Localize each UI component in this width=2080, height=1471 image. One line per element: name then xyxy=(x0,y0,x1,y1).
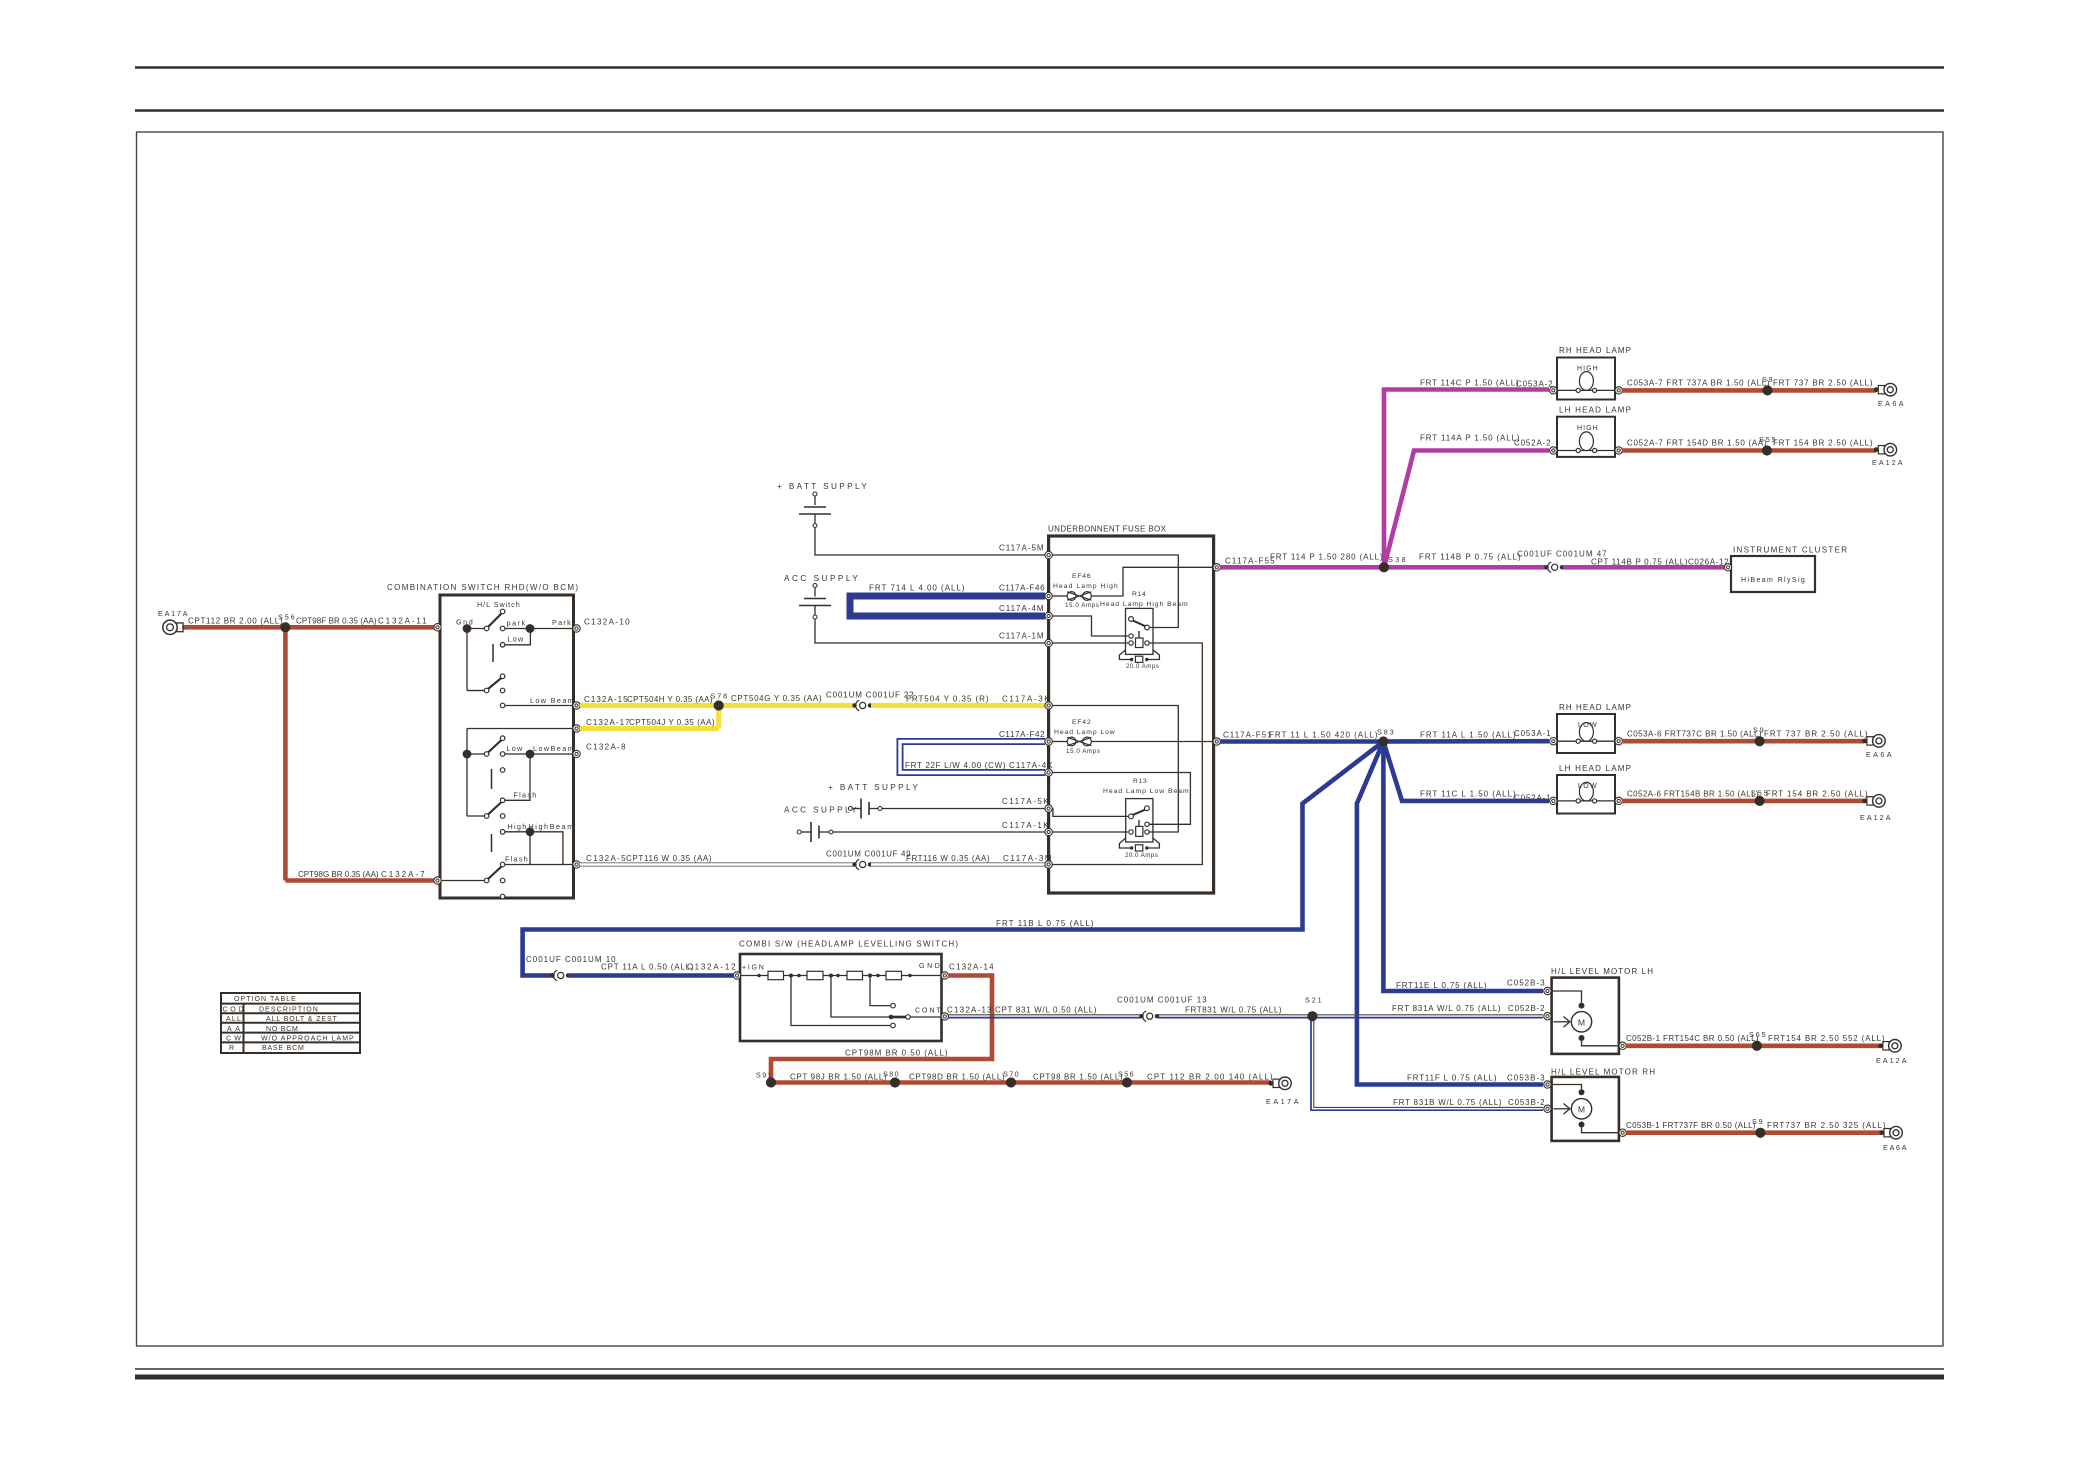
connector C117A-F51 / wire FRT 11 L blue xyxy=(1213,738,1220,745)
svg-text:EA12A: EA12A xyxy=(1860,813,1891,822)
contact Low Beam output xyxy=(500,703,505,708)
connector C117A-5M xyxy=(1045,551,1052,558)
svg-text:M: M xyxy=(1578,1104,1585,1114)
ring terminal EA6A (motor) xyxy=(1884,1129,1890,1137)
svg-text:HIGH: HIGH xyxy=(1577,425,1598,432)
connector C117A-3M xyxy=(1045,861,1052,868)
svg-text:C026A-12: C026A-12 xyxy=(1688,558,1729,567)
svg-text:C053A-2: C053A-2 xyxy=(1516,380,1553,389)
ring terminal EA12A (low) xyxy=(1867,797,1873,805)
svg-text:NO BCM: NO BCM xyxy=(266,1026,298,1033)
page top rule 1 xyxy=(135,66,1944,68)
svg-text:C053B-2: C053B-2 xyxy=(1508,1098,1545,1107)
svg-text:Flash: Flash xyxy=(514,791,537,800)
selector tap 1 xyxy=(870,976,890,1006)
wire CPT112 BR 2.00 (ALL) brown xyxy=(184,625,285,630)
svg-text:CPT 11A L 0.50 (ALL): CPT 11A L 0.50 (ALL) xyxy=(601,963,694,972)
switch linkage dash 3 xyxy=(491,834,493,852)
svg-text:ACC SUPPLY: ACC SUPPLY xyxy=(784,574,859,583)
page bottom thin rule xyxy=(135,1368,1944,1370)
svg-text:FRT 831B W/L 0.75 (ALL): FRT 831B W/L 0.75 (ALL) xyxy=(1393,1098,1502,1107)
wire FRT11E L blue branch xyxy=(1383,742,1543,992)
svg-text:CPT504H Y 0.35 (AA): CPT504H Y 0.35 (AA) xyxy=(627,695,713,704)
20.0 Amps fuse under R14 xyxy=(1119,650,1131,660)
connector C052B-2 xyxy=(1544,1013,1551,1020)
svg-text:FRT 11 L 1.50 420 (ALL): FRT 11 L 1.50 420 (ALL) xyxy=(1269,731,1378,740)
motor LH internals xyxy=(1552,991,1582,1003)
svg-text:C117A-F55: C117A-F55 xyxy=(1225,557,1275,566)
svg-text:FRT11F L 0.75 (ALL): FRT11F L 0.75 (ALL) xyxy=(1407,1074,1497,1083)
wire FRT 831A W/L to motor LH xyxy=(1312,1014,1543,1016)
svg-text:BASE BCM: BASE BCM xyxy=(262,1045,304,1052)
svg-text:DESCRIPTION: DESCRIPTION xyxy=(259,1007,318,1014)
selector tap 2 wiper xyxy=(831,976,889,1018)
svg-text:S80: S80 xyxy=(883,1070,899,1079)
svg-text:FRT11E L 0.75 (ALL): FRT11E L 0.75 (ALL) xyxy=(1396,981,1487,990)
svg-text:Low Beam: Low Beam xyxy=(530,696,574,705)
svg-text:C053A-6 FRT737C BR 1.50 (ALL): C053A-6 FRT737C BR 1.50 (ALL) xyxy=(1627,730,1762,739)
svg-text:S56: S56 xyxy=(1118,1070,1134,1079)
connector C117A-5K xyxy=(1045,805,1052,812)
wire FRT 11B L blue branch xyxy=(523,742,1384,976)
connector C132A-11 on switch box xyxy=(434,624,441,631)
connector C132A-7 on switch box xyxy=(434,877,441,884)
wire EF46 to C117A-F55 xyxy=(1091,567,1213,596)
svg-text:H/L LEVEL MOTOR RH: H/L LEVEL MOTOR RH xyxy=(1551,1068,1655,1077)
inline connector C001UF C001UM 47 xyxy=(1544,565,1548,569)
ring terminal EA17A (left) xyxy=(177,623,183,632)
connector C132A-17 / wire CPT504J yellow xyxy=(573,725,580,732)
svg-text:C117A-F51: C117A-F51 xyxy=(1223,731,1272,740)
switch linkage dash 1 xyxy=(492,644,494,662)
svg-text:C117A-4K: C117A-4K xyxy=(1009,761,1053,770)
svg-text:C117A-5M: C117A-5M xyxy=(999,544,1044,553)
svg-text:R14: R14 xyxy=(1132,591,1146,598)
svg-text:C001UM C001UF 49: C001UM C001UF 49 xyxy=(826,850,911,859)
svg-text:FRT 114A P 1.50 (ALL): FRT 114A P 1.50 (ALL) xyxy=(1420,434,1520,443)
inline connector C001UM C001UF 22 xyxy=(852,703,856,707)
contact flash upper xyxy=(500,768,505,773)
svg-text:LOW: LOW xyxy=(1578,783,1597,790)
svg-text:LOW: LOW xyxy=(1578,722,1597,729)
svg-text:CPT98F BR 0.35 (AA): CPT98F BR 0.35 (AA) xyxy=(296,617,377,626)
svg-text:C117A-1K: C117A-1K xyxy=(1002,821,1049,830)
svg-text:C132A-17: C132A-17 xyxy=(586,718,630,727)
svg-text:S70: S70 xyxy=(1003,1070,1019,1079)
svg-text:FRT 11A L 1.50 (ALL): FRT 11A L 1.50 (ALL) xyxy=(1420,731,1516,740)
svg-text:CPT116 W 0.35 (AA): CPT116 W 0.35 (AA) xyxy=(626,854,712,863)
svg-text:LH HEAD LAMP: LH HEAD LAMP xyxy=(1559,406,1631,415)
svg-text:FRT 11C L 1.50 (ALL): FRT 11C L 1.50 (ALL) xyxy=(1420,790,1516,799)
connector C132A-13 / wire CPT 831 W/L xyxy=(941,1013,948,1020)
svg-text:CW: CW xyxy=(226,1035,241,1042)
junction S21 xyxy=(1307,1011,1317,1021)
svg-text:C117A-5K: C117A-5K xyxy=(1002,797,1049,806)
connector C117A-1M xyxy=(1045,639,1052,646)
connector C117A-F46 xyxy=(1045,592,1052,599)
svg-text:S38: S38 xyxy=(1388,555,1406,564)
svg-text:CPT98D BR 1.50 (ALL): CPT98D BR 1.50 (ALL) xyxy=(909,1073,1005,1082)
connector C132A-15 / wire CPT504H yellow xyxy=(573,702,580,709)
inline connector C001UF C001UM 10 xyxy=(550,973,554,977)
connector C117A-F42 xyxy=(1045,738,1052,745)
junction S9 (high RH) xyxy=(1763,385,1773,395)
wire FRT 714 L 4.00 (ALL) blue U xyxy=(850,596,1045,616)
resistor ladder of levelling switch xyxy=(740,975,768,977)
svg-text:C052B-2: C052B-2 xyxy=(1508,1004,1545,1013)
svg-text:UNDERBONNENT FUSE BOX: UNDERBONNENT FUSE BOX xyxy=(1048,525,1167,534)
svg-text:R: R xyxy=(229,1045,234,1052)
contact spare bottom xyxy=(500,894,505,899)
svg-text:20.0 Amps: 20.0 Amps xyxy=(1125,852,1158,859)
svg-text:C053A-7 FRT 737A BR 1.50 (ALL): C053A-7 FRT 737A BR 1.50 (ALL) xyxy=(1627,379,1770,388)
svg-text:S21: S21 xyxy=(1305,996,1322,1005)
svg-text:FRT504 Y 0.35 (R): FRT504 Y 0.35 (R) xyxy=(906,695,989,704)
svg-text:CPT 114B P 0.75 (ALL): CPT 114B P 0.75 (ALL) xyxy=(1591,558,1688,567)
svg-text:C053B-3: C053B-3 xyxy=(1507,1074,1545,1083)
wire C117A-3K to relay R13 coil xyxy=(1052,706,1178,833)
svg-text:Park: Park xyxy=(552,618,571,627)
svg-text:CPT504G Y 0.35 (AA): CPT504G Y 0.35 (AA) xyxy=(731,694,822,703)
wire C053A-7 FRT 737A brown xyxy=(1622,388,1768,393)
wire CPT 114B P magenta xyxy=(1563,565,1724,570)
svg-text:+ BATT SUPPLY: + BATT SUPPLY xyxy=(828,783,919,792)
wire FRT737 BR 2.50 325 brown xyxy=(1760,1130,1881,1135)
wire FRT 114B P magenta to cluster xyxy=(1384,565,1546,570)
ring terminal EA6A (low) xyxy=(1867,737,1873,745)
junction S38 xyxy=(1379,562,1389,572)
wire brown ground chain S91..S56 xyxy=(771,1080,1270,1085)
svg-text:Head Lamp High Beam: Head Lamp High Beam xyxy=(1100,601,1188,608)
junction S80 xyxy=(890,1078,900,1088)
svg-text:GND: GND xyxy=(919,963,940,970)
wire Gnd rail down xyxy=(466,629,468,691)
connector C117A-4K xyxy=(1045,769,1052,776)
node Park junction xyxy=(505,628,530,630)
switch arm 2 (low beam) xyxy=(467,690,485,692)
svg-text:M: M xyxy=(1578,1017,1585,1027)
20.0 Amps fuse under R13 xyxy=(1119,838,1131,848)
svg-text:FRT 114B P 0.75 (ALL): FRT 114B P 0.75 (ALL) xyxy=(1419,553,1521,562)
svg-text:FRT154 BR 2.50 552 (ALL): FRT154 BR 2.50 552 (ALL) xyxy=(1768,1034,1885,1043)
svg-text:C132A-8: C132A-8 xyxy=(586,743,626,752)
wire FRT116 W 0.35 (AA) white xyxy=(871,862,1045,866)
wire FRT 22F L/W 4.00 (CW) blue/white U xyxy=(900,742,1045,773)
junction S83 xyxy=(1378,737,1388,747)
node LowBeam junction xyxy=(505,753,530,755)
junction dots overlay xyxy=(280,622,290,632)
svg-text:20.0 Amps: 20.0 Amps xyxy=(1126,663,1159,670)
svg-text:FRT737 BR 2.50 325 (ALL): FRT737 BR 2.50 325 (ALL) xyxy=(1767,1121,1886,1130)
switch arm 4 (high) xyxy=(467,815,485,817)
wire C117A-4K to relay R13 pin xyxy=(1052,773,1190,825)
selector tap 3 xyxy=(791,976,890,1026)
connector C052B-3 xyxy=(1544,987,1551,994)
junction S9 (motor) xyxy=(1755,1128,1765,1138)
junction S56 (ground chain) xyxy=(1122,1078,1132,1088)
wire CPT504G Y 0.35 (AA) yellow xyxy=(719,703,854,708)
wire FRT 154 BR 2.50 brown xyxy=(1767,448,1876,453)
svg-text:+IGN: +IGN xyxy=(742,965,764,972)
inline connector C001UM C001UF 49 xyxy=(852,862,856,866)
svg-text:EA17A: EA17A xyxy=(1266,1097,1299,1106)
svg-text:C052A-1: C052A-1 xyxy=(1514,794,1551,803)
svg-text:RH HEAD LAMP: RH HEAD LAMP xyxy=(1559,346,1631,355)
svg-text:FRT831 W/L 0.75 (ALL): FRT831 W/L 0.75 (ALL) xyxy=(1185,1006,1282,1015)
ring terminal EA12A (motor) xyxy=(1883,1042,1889,1050)
junction S9 (low RH) xyxy=(1755,736,1765,746)
page border frame xyxy=(137,132,1944,1346)
svg-text:RH HEAD LAMP: RH HEAD LAMP xyxy=(1559,703,1631,712)
svg-text:C117A-3M: C117A-3M xyxy=(1003,854,1052,863)
inline connector C001UM C001UF 13 xyxy=(1139,1014,1143,1018)
switch arm 1 (park) xyxy=(467,628,485,630)
svg-text:FRT 737 BR 2.50 (ALL): FRT 737 BR 2.50 (ALL) xyxy=(1773,379,1873,388)
wire C117A-1M to relay R14 coil xyxy=(1052,642,1128,644)
svg-text:EF42: EF42 xyxy=(1072,719,1091,726)
svg-text:H/L Switch: H/L Switch xyxy=(477,600,520,609)
svg-text:CPT98M BR 0.50 (ALL): CPT98M BR 0.50 (ALL) xyxy=(845,1049,948,1058)
svg-text:CPT112 BR 2.00 (ALL): CPT112 BR 2.00 (ALL) xyxy=(188,617,283,626)
connector C132A-14 / wire CPT98M brown xyxy=(941,972,948,979)
svg-text:C001UM C001UF 13: C001UM C001UF 13 xyxy=(1117,996,1207,1005)
svg-text:COMBINATION SWITCH RHD(W/O BCM: COMBINATION SWITCH RHD(W/O BCM) xyxy=(387,583,578,592)
svg-text:C117A-F42: C117A-F42 xyxy=(999,730,1045,739)
connector C053B-2 xyxy=(1544,1105,1551,1112)
connector C132A-5 / wire CPT116 W white xyxy=(573,861,580,868)
wire C052A-6 FRT154B brown xyxy=(1622,799,1760,804)
wire FRT 114C P magenta to RH high lamp xyxy=(1384,390,1549,568)
wire C117A-1K to relay R13 coil xyxy=(1052,831,1128,833)
connector C117A-1K xyxy=(1045,828,1052,835)
svg-text:Head Lamp Low: Head Lamp Low xyxy=(1054,729,1115,736)
svg-text:C053A-1: C053A-1 xyxy=(1514,729,1551,738)
junction S78 xyxy=(714,701,724,711)
wire FRT154 BR 2.50 552 brown xyxy=(1757,1044,1881,1049)
junction S91 xyxy=(766,1078,776,1088)
svg-text:15.0 Amps: 15.0 Amps xyxy=(1066,748,1100,755)
svg-text:EF46: EF46 xyxy=(1072,573,1091,580)
svg-text:CPT504J Y 0.35 (AA): CPT504J Y 0.35 (AA) xyxy=(629,718,715,727)
svg-text:FRT 114C P 1.50 (ALL): FRT 114C P 1.50 (ALL) xyxy=(1420,379,1519,388)
svg-text:C117A-3K: C117A-3K xyxy=(1002,695,1050,704)
wire HighBeam to flash contact xyxy=(529,832,531,865)
svg-text:C053B-1 FRT737F BR 0.50 (ALL): C053B-1 FRT737F BR 0.50 (ALL) xyxy=(1626,1121,1756,1130)
wire relay R14 coil to C117A-3M rail xyxy=(1052,643,1202,865)
svg-text:Low: Low xyxy=(508,635,525,644)
motor RH arrow xyxy=(1554,1108,1569,1110)
svg-text:C001UM C001UF 22: C001UM C001UF 22 xyxy=(826,691,914,700)
svg-text:COMBI S/W (HEADLAMP LEVELLING: COMBI S/W (HEADLAMP LEVELLING SWITCH) xyxy=(739,940,958,949)
junction S55 (high LH) xyxy=(1762,446,1772,456)
svg-text:C132A-13: C132A-13 xyxy=(947,1006,992,1015)
wire C117A-4M to relay R14 pin xyxy=(1052,616,1128,636)
switch linkage dash 2 xyxy=(491,769,493,789)
svg-text:FRT 154 BR 2.50 (ALL): FRT 154 BR 2.50 (ALL) xyxy=(1773,439,1873,448)
connector C117A-3K xyxy=(1045,702,1052,709)
wire FRT 11A L blue to RH low lamp xyxy=(1383,739,1549,744)
svg-text:ACC SUPPLY: ACC SUPPLY xyxy=(784,806,858,815)
svg-text:FRT 714 L 4.00 (ALL): FRT 714 L 4.00 (ALL) xyxy=(869,584,965,593)
connector C053B-1 / wire FRT737F brown xyxy=(1619,1129,1626,1136)
svg-text:C132A-11: C132A-11 xyxy=(378,617,427,626)
wire FRT 11C L blue to LH low lamp xyxy=(1383,742,1549,801)
contact High / node HighBeam xyxy=(500,830,505,835)
svg-text:C052A-2: C052A-2 xyxy=(1514,439,1551,448)
wire FRT 737 BR 2.50 brown (low) xyxy=(1760,739,1865,744)
svg-text:ALL BOLT & ZEST: ALL BOLT & ZEST xyxy=(266,1016,338,1023)
svg-text:Flash: Flash xyxy=(505,855,528,864)
page bottom thick rule xyxy=(135,1375,1944,1380)
wire batt feed to relay R14 contact xyxy=(1052,555,1178,628)
svg-text:S78: S78 xyxy=(711,692,728,701)
svg-text:C117A-4M: C117A-4M xyxy=(999,604,1044,613)
svg-text:C052B-3: C052B-3 xyxy=(1507,979,1545,988)
ring terminal EA12A (high) xyxy=(1878,446,1884,454)
svg-text:FRT 114 P 1.50 280 (ALL): FRT 114 P 1.50 280 (ALL) xyxy=(1270,553,1383,562)
connector C052B-1 / wire FRT154C brown xyxy=(1619,1042,1626,1049)
connector C132A-8 xyxy=(573,750,580,757)
wire FRT 831B W/L to motor RH xyxy=(1311,1018,1543,1111)
svg-text:C052A-6 FRT154B BR 1.50 (ALL): C052A-6 FRT154B BR 1.50 (ALL) xyxy=(1627,790,1759,799)
switch arm 3 (LowBeam) xyxy=(467,753,485,755)
svg-text:HiBeam RlySig: HiBeam RlySig xyxy=(1741,577,1805,584)
ring terminal EA17A (right) xyxy=(1273,1079,1279,1087)
junction S56 xyxy=(280,622,290,632)
svg-text:EA12A: EA12A xyxy=(1872,458,1903,467)
svg-text:FRT 154 BR 2.50 (ALL): FRT 154 BR 2.50 (ALL) xyxy=(1766,790,1868,799)
svg-text:LH HEAD LAMP: LH HEAD LAMP xyxy=(1559,764,1631,773)
junction S70 xyxy=(1006,1078,1016,1088)
svg-text:W/O APPROACH LAMP: W/O APPROACH LAMP xyxy=(261,1035,354,1042)
wire brown drop S56 to C132A-7 xyxy=(283,627,288,880)
svg-text:S56: S56 xyxy=(278,613,295,622)
svg-text:FRT 22F L/W 4.00 (CW): FRT 22F L/W 4.00 (CW) xyxy=(905,761,1006,770)
connector C132A-10 xyxy=(573,625,580,632)
svg-text:R13: R13 xyxy=(1133,778,1147,785)
junction S55 (low LH) xyxy=(1755,796,1765,806)
svg-text:+ BATT SUPPLY: + BATT SUPPLY xyxy=(777,482,868,491)
svg-text:Head Lamp Low Beam: Head Lamp Low Beam xyxy=(1103,788,1189,795)
motor LH arrow xyxy=(1554,1021,1569,1023)
svg-text:15.0 Amps: 15.0 Amps xyxy=(1065,602,1099,609)
wire C132A-17 internal rail xyxy=(467,728,574,730)
svg-text:HighBeam: HighBeam xyxy=(529,822,574,831)
wire CPT 11A L 0.50 blue xyxy=(569,973,737,978)
svg-text:CPT98 BR 1.50 (ALL): CPT98 BR 1.50 (ALL) xyxy=(1033,1073,1123,1082)
junction S65 xyxy=(1752,1041,1762,1051)
svg-text:C117A-1M: C117A-1M xyxy=(999,632,1044,641)
ring terminal EA6A (high) xyxy=(1878,386,1884,394)
connector C117A-4M xyxy=(1045,612,1052,619)
svg-text:S65: S65 xyxy=(1749,1030,1766,1039)
motor RH internals xyxy=(1552,1085,1582,1090)
svg-text:EA12A: EA12A xyxy=(1876,1056,1907,1065)
node switch3 feed xyxy=(463,750,472,759)
svg-text:ALL: ALL xyxy=(226,1016,241,1023)
svg-text:CPT 98J BR 1.50 (ALL): CPT 98J BR 1.50 (ALL) xyxy=(790,1073,887,1082)
svg-text:COD: COD xyxy=(223,1006,244,1013)
svg-text:High: High xyxy=(508,822,527,831)
svg-text:Low: Low xyxy=(507,744,524,753)
switch arm 5 (flash) xyxy=(440,880,485,882)
wire FRT831 W/L 0.75 xyxy=(1158,1014,1312,1016)
contact Low (section1) xyxy=(500,643,505,648)
connector C117A-F55 / wire FRT 114 P magenta xyxy=(1213,564,1220,571)
svg-text:C132A-10: C132A-10 xyxy=(584,618,630,627)
wire C117A-5K to relay R13 pivot xyxy=(1052,809,1128,817)
svg-text:FRT 11B L 0.75 (ALL): FRT 11B L 0.75 (ALL) xyxy=(996,919,1094,928)
svg-text:EA17A: EA17A xyxy=(158,609,188,618)
wire FRT11F L blue branch xyxy=(1357,742,1543,1085)
svg-text:FRT 737 BR 2.50 (ALL): FRT 737 BR 2.50 (ALL) xyxy=(1764,730,1868,739)
page top rule 2 xyxy=(135,109,1944,111)
svg-text:FRT116 W 0.35 (AA): FRT116 W 0.35 (AA) xyxy=(906,854,990,863)
svg-text:S83: S83 xyxy=(1377,728,1394,737)
svg-text:C132A-15: C132A-15 xyxy=(584,695,628,704)
svg-text:C132A-12: C132A-12 xyxy=(687,963,736,972)
svg-text:OPTION TABLE: OPTION TABLE xyxy=(234,996,296,1003)
wire FRT 114A P magenta to LH high lamp xyxy=(1384,451,1549,568)
wire EF42 to C117A-F51 xyxy=(1091,741,1213,743)
svg-text:C052B-1 FRT154C BR 0.50 (ALL): C052B-1 FRT154C BR 0.50 (ALL) xyxy=(1626,1034,1759,1043)
svg-text:INSTRUMENT CLUSTER: INSTRUMENT CLUSTER xyxy=(1733,546,1847,555)
svg-text:CPT98G BR 0.35 (AA): CPT98G BR 0.35 (AA) xyxy=(298,870,379,879)
svg-text:Head Lamp High: Head Lamp High xyxy=(1053,583,1118,590)
svg-text:C052A-7 FRT 154D BR 1.50 (AA): C052A-7 FRT 154D BR 1.50 (AA) xyxy=(1627,439,1767,448)
wire FRT 154 BR 2.50 brown (low) xyxy=(1760,799,1865,804)
connector C132A-12 on combi box xyxy=(733,972,740,979)
svg-text:H/L LEVEL MOTOR LH: H/L LEVEL MOTOR LH xyxy=(1551,967,1653,976)
svg-text:CPT 112 BR 2.00 140 (ALL): CPT 112 BR 2.00 140 (ALL) xyxy=(1147,1073,1273,1082)
wire CPT98F BR 0.35 (AA) brown xyxy=(285,625,437,630)
svg-text:C132A-5: C132A-5 xyxy=(586,854,626,863)
wire FRT 737 BR 2.50 brown xyxy=(1768,388,1877,393)
svg-text:CPT 831 W/L 0.50 (ALL): CPT 831 W/L 0.50 (ALL) xyxy=(995,1006,1097,1015)
connector C053B-3 xyxy=(1544,1081,1551,1088)
svg-text:FRT 831A W/L 0.75 (ALL): FRT 831A W/L 0.75 (ALL) xyxy=(1392,1004,1501,1013)
svg-text:park: park xyxy=(507,619,526,628)
wire C052A-7 FRT 154D brown xyxy=(1622,448,1767,453)
svg-text:HIGH: HIGH xyxy=(1577,366,1598,373)
wire LowBeam to flash contact xyxy=(505,754,530,800)
svg-text:C117A-F46: C117A-F46 xyxy=(999,584,1045,593)
wire FRT504 Y 0.35 (R) yellow xyxy=(871,703,1045,708)
wire C053A-6 FRT737C brown xyxy=(1622,739,1760,744)
svg-text:C132A-14: C132A-14 xyxy=(949,963,994,972)
svg-text:LowBeam: LowBeam xyxy=(533,744,574,753)
table OPTION TABLE xyxy=(221,993,360,1053)
